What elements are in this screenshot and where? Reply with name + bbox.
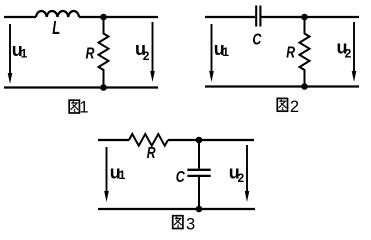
svg-text:1: 1 [21, 47, 28, 61]
svg-text:R: R [86, 46, 95, 63]
node: fig1 top junction [100, 14, 107, 21]
node: fig1 bottom junction [100, 84, 107, 91]
wire: fig3 junction to capacitor [198, 140, 200, 169]
svg-text:C: C [176, 169, 186, 186]
node: fig3 top junction [196, 137, 203, 144]
svg-text:3: 3 [186, 215, 195, 233]
svg-text:2: 2 [345, 47, 352, 61]
svg-text:2: 2 [143, 49, 150, 63]
caption 图1 [69, 99, 88, 117]
arrow u1 fig3 [104, 147, 109, 202]
wire: fig1 top left segment [4, 16, 36, 18]
node: fig2 top junction [301, 14, 308, 21]
wire: fig2 top right segment [261, 16, 359, 18]
caption 图3 [173, 215, 195, 233]
arrow u2 fig2 [352, 22, 357, 82]
arrow u1 fig1 [8, 24, 13, 84]
caption 图2 [277, 98, 299, 116]
wire: fig1 bottom [4, 86, 158, 88]
svg-text:C: C [252, 31, 262, 48]
resistor R1 [99, 17, 109, 88]
wire: fig2 bottom [205, 85, 359, 87]
svg-text:L: L [52, 18, 60, 38]
svg-text:1: 1 [79, 99, 88, 117]
svg-text:1: 1 [222, 45, 229, 59]
node: fig3 bottom junction [196, 206, 203, 213]
arrow u1 fig2 [209, 24, 214, 82]
resistor R2 [300, 17, 310, 87]
svg-text:R: R [147, 145, 156, 162]
capacitor C3 [187, 170, 210, 176]
arrow u2 fig1 [150, 22, 155, 82]
wire: fig3 capacitor to bottom [198, 177, 200, 209]
wire: fig3 top left segment [98, 139, 129, 141]
wire: fig1 top right segment [79, 16, 158, 18]
svg-text:2: 2 [290, 98, 299, 116]
node: fig2 bottom junction [301, 83, 308, 90]
wire: fig2 top left segment [205, 16, 255, 18]
arrow u2 fig3 [245, 145, 250, 202]
resistor R3 [129, 134, 168, 146]
wire: fig3 bottom [98, 208, 255, 210]
svg-text:2: 2 [238, 171, 245, 185]
svg-text:R: R [286, 45, 295, 62]
inductor L1 [36, 11, 79, 17]
svg-text:1: 1 [119, 168, 126, 182]
capacitor C2 [256, 6, 260, 27]
wire: fig3 top right segment [168, 139, 254, 141]
